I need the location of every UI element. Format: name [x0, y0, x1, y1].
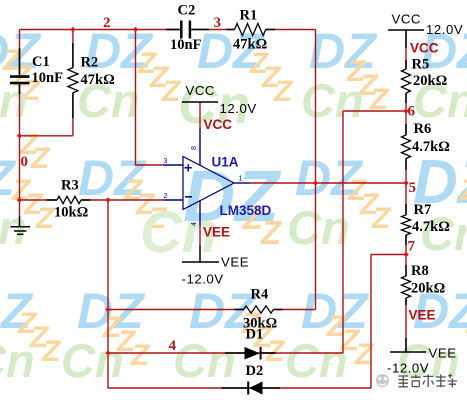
svg-text:47kΩ: 47kΩ	[233, 37, 267, 53]
svg-text:-12.0V: -12.0V	[182, 272, 224, 287]
capacitor C2	[166, 21, 209, 39]
svg-text:3: 3	[164, 158, 168, 165]
svg-text:Z: Z	[35, 202, 56, 235]
node junction R2 top	[70, 27, 75, 32]
svg-text:Z: Z	[265, 335, 286, 368]
svg-text:R5: R5	[412, 57, 430, 73]
svg-text:20kΩ: 20kΩ	[413, 73, 447, 89]
node 0 junction C1/R2	[17, 133, 22, 138]
node 7 junction	[403, 252, 408, 257]
svg-text:Cn: Cn	[0, 334, 35, 387]
pin 2 stub	[164, 199, 184, 201]
svg-text:4.7kΩ: 4.7kΩ	[412, 139, 450, 155]
svg-text:4: 4	[169, 338, 177, 354]
svg-text:Z: Z	[459, 174, 467, 207]
svg-text:Z: Z	[273, 75, 294, 108]
node 4 junction D1 row	[105, 350, 110, 355]
wire node 2 vertical to op-amp pin 3	[136, 30, 164, 166]
diode D1	[225, 347, 276, 360]
wire node 6 horizontal	[343, 110, 406, 112]
svg-text:6: 6	[408, 104, 416, 120]
node 6 junction	[403, 108, 408, 113]
svg-text:U1A: U1A	[212, 155, 239, 170]
node 0 junction ground	[17, 197, 22, 202]
svg-text:4: 4	[191, 222, 198, 226]
svg-text:C2: C2	[178, 3, 196, 19]
svg-text:12.0V: 12.0V	[220, 101, 257, 116]
svg-text:VCC: VCC	[410, 41, 439, 56]
svg-text:10kΩ: 10kΩ	[54, 205, 88, 221]
svg-text:2: 2	[103, 15, 111, 31]
svg-text:VEE: VEE	[203, 225, 230, 240]
svg-text:VCC: VCC	[186, 83, 216, 98]
svg-text:10nF: 10nF	[32, 70, 64, 86]
wire left lower vertical (node 4 net)	[107, 200, 109, 388]
svg-text:0: 0	[21, 154, 29, 170]
svg-text:VEE: VEE	[409, 308, 436, 323]
resistor R3	[47, 196, 91, 203]
svg-text:R8: R8	[411, 263, 429, 279]
svg-text:12.0V: 12.0V	[426, 22, 463, 37]
power VEE symbol (right rail)	[390, 338, 426, 352]
wire D2 branch vertical to node 7	[370, 255, 372, 389]
op-amp minus input marker	[185, 196, 192, 198]
wire op-amp VCC stem	[199, 102, 201, 128]
svg-text:R3: R3	[61, 178, 79, 194]
wire D1 row	[108, 352, 343, 354]
pin 1 output stub	[234, 182, 250, 184]
svg-text:Z: Z	[354, 338, 375, 371]
svg-text:LM358D: LM358D	[220, 203, 272, 218]
svg-text:-12.0V: -12.0V	[387, 361, 429, 376]
svg-text:Cn: Cn	[301, 74, 364, 127]
svg-text:7: 7	[408, 239, 416, 255]
svg-text:Cn: Cn	[287, 201, 350, 254]
svg-text:2: 2	[164, 193, 168, 200]
resistor R4	[235, 306, 283, 313]
svg-text:R1: R1	[240, 8, 258, 24]
resistor R6	[402, 124, 411, 170]
svg-text:5: 5	[409, 180, 417, 196]
wire top rail node 3 (C2 to R1 to right corner)	[190, 29, 235, 31]
svg-text:Cn: Cn	[285, 334, 348, 387]
wire left vertical C1 branch	[19, 30, 21, 77]
wire R2 branch vertical	[72, 30, 74, 68]
wire node 7 horizontal	[371, 254, 406, 256]
svg-text:Cn: Cn	[173, 334, 236, 387]
svg-text:4.7kΩ: 4.7kΩ	[412, 219, 450, 235]
wire feedback vertical x=315.5	[315, 30, 317, 310]
svg-text:Z: Z	[260, 214, 283, 251]
wire node 0 row (C1 to R2 bottom)	[20, 135, 73, 137]
svg-text:1: 1	[239, 176, 243, 183]
svg-text:8: 8	[191, 146, 198, 150]
svg-text:VEE: VEE	[429, 346, 457, 361]
node 4 junction R4 row	[105, 307, 110, 312]
ground	[11, 217, 31, 235]
svg-text:3: 3	[214, 15, 222, 31]
wire op-amp VEE stem	[199, 226, 201, 245]
svg-text:VCC: VCC	[204, 117, 233, 132]
svg-text:D2: D2	[246, 363, 264, 379]
capacitor C1	[10, 48, 30, 94]
wire D1 branch vertical to node 6	[342, 111, 344, 353]
svg-text:R7: R7	[414, 202, 432, 218]
node 5 junction feedback	[313, 180, 318, 185]
power VEE symbol (op-amp)	[182, 245, 219, 262]
svg-text:VEE: VEE	[221, 255, 249, 270]
resistor R7	[402, 204, 411, 245]
svg-text:R2: R2	[81, 55, 99, 71]
node 2 junction	[133, 27, 138, 32]
svg-text:C1: C1	[32, 54, 50, 70]
svg-text:Z: Z	[130, 339, 151, 372]
svg-text:Z: Z	[30, 142, 51, 175]
op-amp plus input marker	[185, 164, 192, 171]
pin 3 stub	[164, 164, 184, 166]
wire top rail node 2 (left part)	[20, 29, 182, 31]
node 4 junction pin2 row	[105, 197, 110, 202]
node 5 junction right rail	[403, 180, 408, 185]
svg-text:VCC: VCC	[392, 12, 422, 27]
logo watermark bottom right	[376, 374, 457, 387]
svg-text:20kΩ: 20kΩ	[411, 281, 445, 297]
op-amp U1A triangle	[183, 157, 234, 210]
resistor R8	[402, 265, 411, 305]
op-amp U1A	[164, 128, 251, 226]
svg-text:10nF: 10nF	[170, 37, 202, 53]
power VCC symbol (op-amp)	[182, 101, 218, 103]
wire R4 row	[108, 309, 244, 311]
power VCC symbol (right rail)	[388, 30, 424, 48]
svg-text:47kΩ: 47kΩ	[81, 72, 115, 88]
svg-text:Z: Z	[41, 335, 62, 368]
pin 4 power stub	[199, 201, 201, 226]
svg-text:R4: R4	[251, 287, 269, 303]
wire right rail vertical	[405, 30, 407, 70]
svg-text:R6: R6	[414, 121, 432, 137]
pin 8 power stub	[199, 128, 201, 165]
diode D2	[222, 382, 281, 395]
wire R3 row to op-amp pin 2	[20, 199, 58, 201]
svg-text:D1: D1	[246, 327, 264, 343]
resistor R5	[402, 60, 411, 103]
wire D2 row	[108, 387, 371, 389]
resistor R2	[68, 43, 78, 118]
wire node 5 row (op-amp output to right rail)	[250, 182, 406, 184]
svg-text:Z: Z	[371, 202, 392, 235]
svg-text:Cn: Cn	[61, 334, 124, 387]
resistor R1	[227, 24, 276, 36]
